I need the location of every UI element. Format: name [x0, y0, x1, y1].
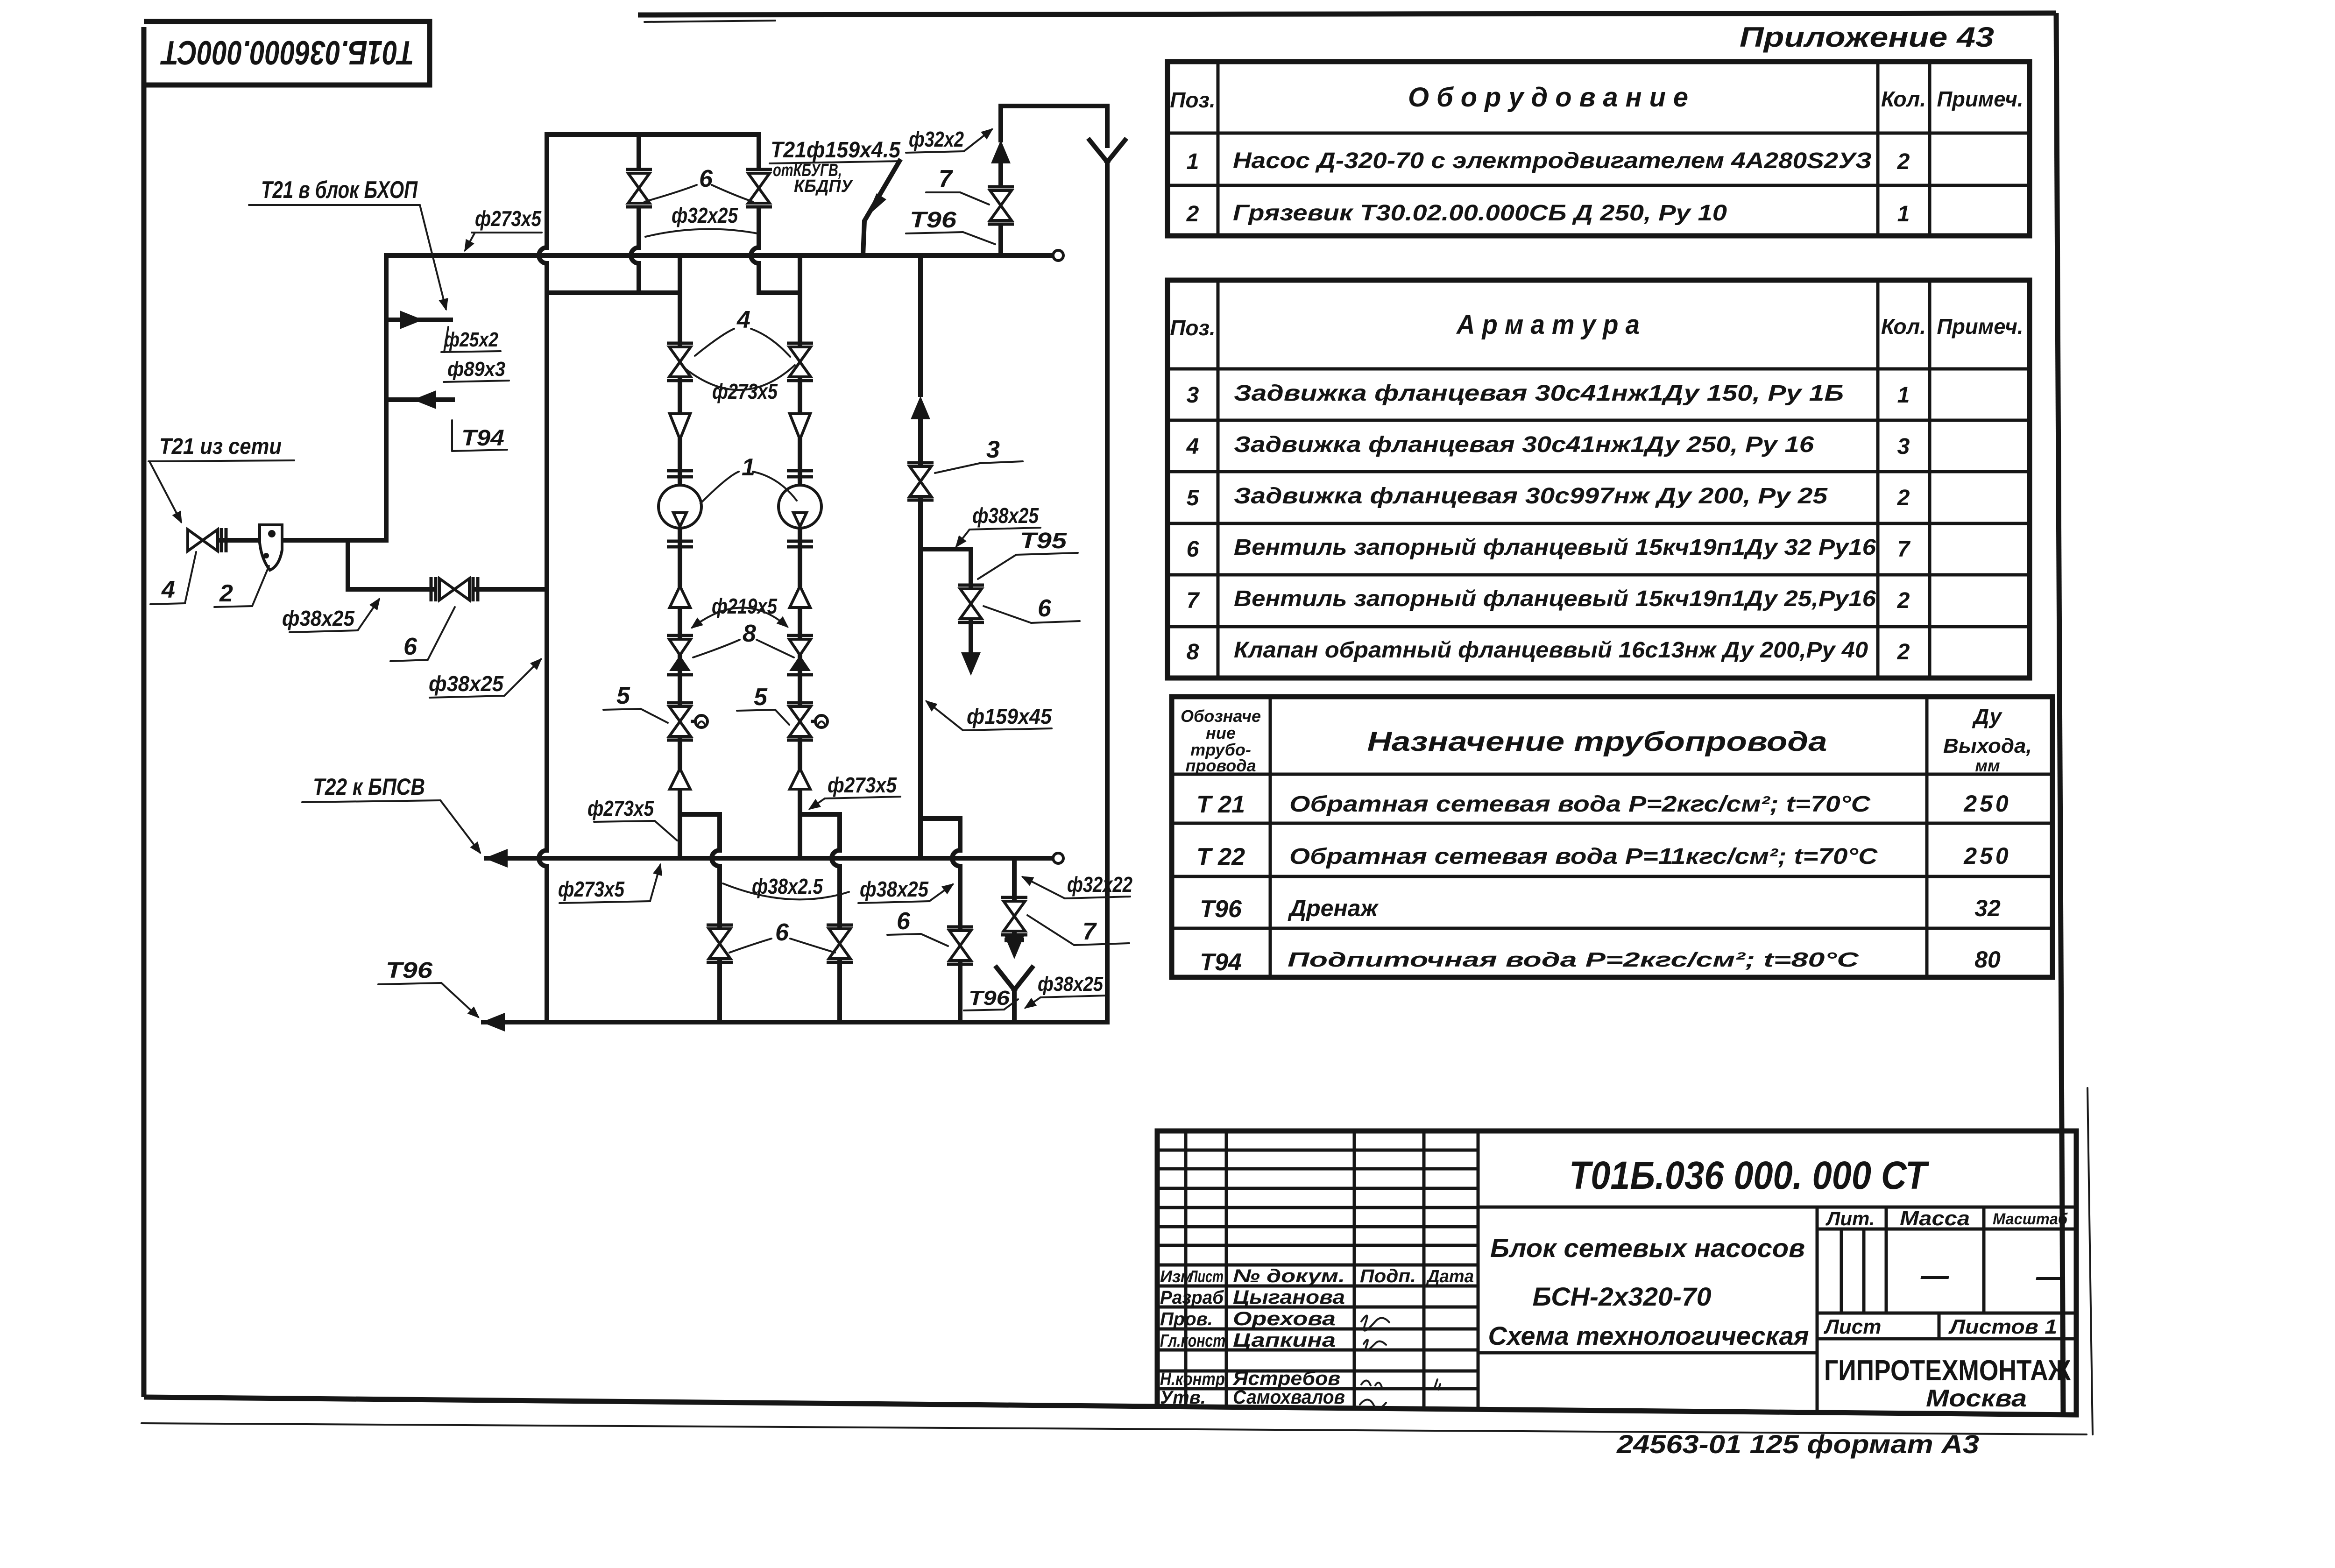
pipe: strainer to riser [284, 538, 386, 543]
svg-text:ние: ние [1206, 723, 1236, 742]
table Назначение трубопровода [1172, 697, 2052, 977]
flow arrow down into funnel [1005, 936, 1024, 959]
svg-text:Выхода,: Выхода, [1943, 735, 2032, 757]
svg-text:провода: провода [1185, 756, 1256, 775]
flow arrow down (T95 outlet) [961, 652, 981, 676]
svg-text:ф38х25: ф38х25 [429, 671, 504, 696]
svg-text:Москва: Москва [1926, 1385, 2027, 1412]
pump 1 (left) [658, 485, 701, 528]
svg-text:5: 5 [616, 682, 630, 709]
svg-text:Задвижка фланцевая 30с41нж1Ду: Задвижка фланцевая 30с41нж1Ду 150, Ру 1Б [1234, 381, 1844, 406]
svg-text:7: 7 [939, 165, 953, 192]
valve 4 (left pump suction) [669, 347, 691, 362]
pipe: recirculation riser upper [918, 255, 923, 395]
pipe: jog y627 right [759, 290, 800, 295]
flow arrow right [400, 311, 423, 329]
svg-text:ф38х25: ф38х25 [1038, 973, 1103, 996]
valve 6 (drain stub 2) [829, 929, 850, 944]
valve 6 (left vent) [628, 173, 650, 188]
svg-text:Примеч.: Примеч. [1937, 87, 2024, 111]
svg-text:Цапкина: Цапкина [1233, 1329, 1336, 1351]
title block: main divider [1477, 1131, 1480, 1408]
pipe: lower T22 header [486, 856, 1053, 861]
svg-text:ф273х5: ф273х5 [558, 877, 625, 901]
svg-text:ф273х5: ф273х5 [475, 206, 542, 231]
svg-text:Приложение 43: Приложение 43 [1740, 21, 1994, 53]
funnel (drain) top right [1090, 140, 1107, 162]
flow arrow: T22 out [484, 849, 508, 868]
expander left lower [670, 769, 690, 789]
pipe: left drain jog [680, 812, 720, 817]
svg-text:ф32х25: ф32х25 [672, 203, 738, 227]
expander left [670, 586, 690, 607]
pipe: recirculation riser lower [918, 498, 923, 858]
svg-text:Лит.: Лит. [1826, 1208, 1875, 1229]
svg-text:3: 3 [986, 436, 1000, 463]
svg-text:Лист: Лист [1188, 1267, 1224, 1286]
pipe: jog y627 left [547, 290, 680, 295]
pipe: vent top horizontal [1001, 104, 1107, 108]
svg-text:Т94: Т94 [461, 426, 504, 451]
svg-text:Цыганова: Цыганова [1233, 1286, 1345, 1308]
svg-text:Подпиточная вода Р=2кгс/см²; t: Подпиточная вода Р=2кгс/см²; t=80°С [1288, 948, 1860, 971]
pipe: vent riser top [998, 106, 1003, 140]
svg-text:7: 7 [1187, 588, 1200, 613]
pipe: into funnel [1105, 106, 1110, 146]
svg-text:Примеч.: Примеч. [1937, 314, 2024, 339]
svg-text:Т21 из сети: Т21 из сети [159, 434, 282, 459]
strainer (грязевик) pos 2 [260, 525, 282, 570]
pipe: left drain stub lower [717, 961, 722, 1022]
pipe: bypass right part [475, 587, 547, 592]
pipe: right vent drop upper [757, 134, 761, 167]
svg-text:2: 2 [1186, 202, 1199, 226]
pipe: right vent drop lower (hops header) [751, 209, 759, 293]
svg-text:7: 7 [1083, 918, 1097, 945]
svg-text:ф38х25: ф38х25 [282, 606, 355, 630]
svg-text:ф159х45: ф159х45 [967, 704, 1052, 728]
pump 1 (right) [778, 485, 821, 528]
pipe: left vent drop upper [637, 134, 641, 167]
svg-text:6: 6 [403, 633, 417, 660]
svg-text:2: 2 [1897, 486, 1910, 510]
flow arrow up (recirc riser) [911, 396, 930, 419]
svg-text:Обозначе: Обозначе [1181, 706, 1261, 726]
svg-text:Блок сетевых насосов: Блок сетевых насосов [1490, 1233, 1805, 1263]
svg-text:Лист: Лист [1824, 1315, 1882, 1338]
signatures [1361, 1315, 1389, 1330]
svg-text:Назначение трубопровода: Назначение трубопровода [1367, 727, 1827, 757]
svg-text:Т95: Т95 [1020, 529, 1068, 553]
svg-text:КБДПУ: КБДПУ [794, 177, 854, 196]
svg-text:Т21 в блок БХОП: Т21 в блок БХОП [261, 177, 418, 204]
svg-text:Дренаж: Дренаж [1288, 895, 1379, 921]
svg-text:Масса: Масса [1900, 1207, 1970, 1230]
pipe: third drain stub lower [958, 962, 962, 1022]
funnel (drain) bottom right [997, 968, 1014, 990]
svg-text:—: — [1920, 1260, 1949, 1291]
pipe: incoming T21 ф159х4.5 diagonal [863, 161, 899, 255]
valve 5 (right, w/ gear) [789, 706, 811, 721]
valve 7 (top vent) [990, 191, 1012, 205]
valve 5 (left, w/ gear) [669, 706, 691, 721]
svg-text:Грязевик Т30.02.00.000СБ Д 25: Грязевик Т30.02.00.000СБ Д 250, Ру 10 [1233, 201, 1727, 226]
svg-text:8: 8 [1187, 640, 1199, 664]
svg-text:Насос Д-320-70 с электродвигат: Насос Д-320-70 с электродвигателем 4А280… [1233, 148, 1872, 173]
svg-text:6: 6 [1038, 595, 1052, 622]
svg-text:3: 3 [1187, 383, 1199, 408]
svg-text:Т22 к БПСВ: Т22 к БПСВ [313, 774, 425, 800]
svg-text:4: 4 [736, 306, 750, 333]
frame bottom border [144, 1397, 1157, 1406]
valve 6 (right vent) [748, 173, 770, 188]
svg-text:6: 6 [775, 919, 789, 946]
svg-text:ф273х5: ф273х5 [587, 796, 654, 820]
pipe: T21 to BHOP branch [386, 318, 451, 322]
pipe: right pump column [798, 255, 802, 344]
svg-text:Дата: Дата [1426, 1267, 1474, 1286]
svg-text:2: 2 [1897, 149, 1910, 174]
svg-text:Пров.: Пров. [1160, 1309, 1213, 1329]
pipe: vent riser (valve 7) [998, 225, 1003, 255]
svg-text:4: 4 [1186, 434, 1199, 459]
svg-text:Самохвалов: Самохвалов [1233, 1386, 1345, 1408]
pipe: funnel standpipe [1105, 162, 1110, 1022]
table Арматура [1167, 280, 2030, 678]
outer vertical by title block [2087, 1088, 2093, 1434]
svg-text:1: 1 [1187, 149, 1199, 174]
svg-text:1: 1 [742, 454, 755, 481]
pipe: long drain line upper (hops T21 header) [539, 134, 547, 849]
check valve 8 (right) [789, 639, 811, 655]
svg-text:№ докум.: № докум. [1233, 1266, 1345, 1286]
pipe: right drain stub lower [837, 961, 842, 1022]
flow arrow: T96 out [481, 1013, 505, 1031]
pipe: drop to bypass [346, 540, 350, 589]
pipe: main riser [384, 255, 389, 540]
svg-text:А р м а т у р а: А р м а т у р а [1456, 310, 1640, 340]
svg-text:Обратная сетевая вода Р=2кгс/с: Обратная сетевая вода Р=2кгс/см²; t=70°С [1289, 792, 1871, 817]
svg-text:Т21ф159х4.5: Т21ф159х4.5 [771, 138, 901, 162]
svg-text:ф32х2: ф32х2 [909, 127, 964, 151]
svg-text:Т01Б.036000.000СТ: Т01Б.036000.000СТ [160, 34, 414, 71]
valve 6 (drain stub 1) [709, 929, 730, 944]
pipe: top box header [547, 132, 759, 137]
svg-text:Т96: Т96 [910, 208, 956, 233]
svg-text:32: 32 [1974, 895, 2001, 921]
svg-text:Разраб: Разраб [1160, 1287, 1224, 1308]
pipe: T95 drain outlet [969, 620, 973, 654]
svg-text:Т01Б.036 000. 000 СТ: Т01Б.036 000. 000 СТ [1569, 1153, 1930, 1197]
pipe: third drain stub (hops T22 header) [952, 819, 960, 929]
svg-text:ф38х25: ф38х25 [972, 503, 1039, 528]
svg-text:ф25х2: ф25х2 [444, 328, 498, 351]
thin bottom rule [142, 1423, 2087, 1434]
valve 4 (right pump suction) [789, 347, 811, 362]
svg-text:80: 80 [1974, 946, 2001, 973]
valve 6 (drain stub 3) [949, 931, 971, 946]
frame left border [142, 27, 147, 1397]
svg-text:250: 250 [1963, 843, 2011, 869]
svg-text:БСН-2х320-70: БСН-2х320-70 [1533, 1282, 1712, 1311]
valve 6 (T95 drain) [960, 589, 982, 604]
svg-text:3: 3 [1897, 434, 1910, 459]
svg-text:О б о р у д о в а н и е: О б о р у д о в а н и е [1408, 82, 1688, 113]
svg-text:ф32х22: ф32х22 [1067, 872, 1132, 897]
svg-text:2: 2 [1897, 588, 1910, 613]
pipe: right drain jog [800, 812, 840, 817]
svg-text:Т96: Т96 [969, 987, 1010, 1010]
svg-text:Обратная сетевая вода Р=11кгс/: Обратная сетевая вода Р=11кгс/см²; t=70°… [1289, 844, 1878, 869]
pipe: left drain stub (hops T22 header) [712, 814, 720, 927]
pipe: T95 branch drop [969, 549, 973, 588]
valve 6 (bypass globe valve) [439, 579, 454, 600]
flow arrow left (T94 in) [413, 390, 436, 409]
svg-text:Гл.конст.: Гл.конст. [1160, 1331, 1229, 1351]
svg-text:Клапан обратный фланцеввый 16с: Клапан обратный фланцеввый 16с13нж Ду 20… [1234, 638, 1868, 663]
svg-text:Вентиль запорный фланцевый 15к: Вентиль запорный фланцевый 15кч19п1Ду 32… [1234, 535, 1876, 560]
svg-text:Задвижка фланцевая 30с997нж Ду: Задвижка фланцевая 30с997нж Ду 200, Ру 2… [1234, 484, 1828, 509]
svg-text:5: 5 [754, 684, 768, 711]
pipe: funnel stem to T96 header [1012, 990, 1017, 1022]
svg-text:7: 7 [1897, 537, 1911, 562]
svg-text:Масштаб: Масштаб [1993, 1210, 2068, 1228]
valve 4 (inlet gate valve) [188, 530, 203, 551]
overdrawn stroke artifact [644, 21, 775, 22]
svg-text:Кол.: Кол. [1881, 87, 1926, 111]
svg-text:Листов 1: Листов 1 [1948, 1315, 2057, 1338]
svg-text:2: 2 [219, 580, 233, 607]
svg-text:Кол.: Кол. [1881, 314, 1926, 339]
svg-text:6: 6 [897, 908, 911, 935]
frame right border [2056, 13, 2063, 1415]
pipe: left pump column [678, 255, 682, 344]
pipe: T94 makeup branch [386, 397, 453, 402]
pipe: third drain jog [920, 816, 960, 821]
title block [1157, 1131, 2076, 1415]
svg-text:2: 2 [1897, 640, 1910, 664]
svg-text:ГИПРОТЕХМОНТАЖ: ГИПРОТЕХМОНТАЖ [1824, 1355, 2071, 1387]
pipe: recirculation riser mid [918, 418, 923, 466]
flow arrow on diagonal [866, 193, 886, 217]
svg-text:Подп.: Подп. [1360, 1266, 1416, 1286]
svg-text:5: 5 [1187, 486, 1200, 510]
svg-text:Утв.: Утв. [1160, 1387, 1206, 1408]
pipe: inlet to strainer [218, 538, 260, 543]
svg-text:Изм: Изм [1160, 1267, 1193, 1286]
pipe: long drain line lower (hops T22 header) [539, 849, 547, 1022]
svg-text:ф273х5: ф273х5 [828, 773, 897, 797]
svg-text:Т96: Т96 [1200, 896, 1242, 923]
svg-text:Т 21: Т 21 [1196, 791, 1245, 818]
svg-text:Н.контр.: Н.контр. [1160, 1370, 1229, 1389]
valve 3 (gate valve) [910, 466, 931, 481]
svg-text:1: 1 [1897, 383, 1910, 408]
frame top border [638, 13, 2056, 15]
svg-text:Поз.: Поз. [1170, 88, 1215, 112]
pipe: bypass left part [348, 587, 433, 592]
svg-text:Поз.: Поз. [1170, 316, 1215, 340]
svg-text:Задвижка фланцевая 30с41нж1Ду: Задвижка фланцевая 30с41нж1Ду 250, Ру 16 [1234, 432, 1814, 457]
svg-text:—: — [2036, 1261, 2065, 1292]
pipe: vent riser above valve [998, 166, 1003, 186]
expander right lower [790, 769, 810, 789]
svg-text:Ду: Ду [1972, 704, 2002, 728]
table Оборудование [1167, 62, 2030, 236]
svg-text:250: 250 [1963, 791, 2011, 817]
pipe: T95 branch horizontal [920, 547, 971, 551]
header end nub [1053, 250, 1063, 261]
svg-text:1: 1 [1897, 202, 1910, 226]
svg-text:8: 8 [743, 620, 756, 647]
svg-text:4: 4 [161, 576, 175, 603]
svg-text:6: 6 [699, 165, 713, 192]
pipe: bottom T96 drain header [483, 1020, 1107, 1024]
svg-text:Схема технологическая: Схема технологическая [1488, 1321, 1809, 1350]
svg-text:6: 6 [1187, 537, 1199, 562]
svg-text:Т96: Т96 [386, 958, 432, 983]
svg-text:Т94: Т94 [1200, 949, 1242, 976]
expander right [790, 586, 810, 607]
pipe: right drain stub (hops T22 header) [832, 814, 840, 927]
svg-text:ф38х25: ф38х25 [860, 877, 929, 901]
reducer right [790, 414, 810, 439]
pipe: drain w/ valve 7 bottom [1012, 858, 1017, 898]
svg-text:ф89х3: ф89х3 [447, 358, 505, 381]
flow arrow up (vent) [991, 140, 1011, 163]
pipe: left vent drop lower (hops header) [631, 209, 639, 293]
svg-text:24563-01 125 формат А3: 24563-01 125 формат А3 [1616, 1429, 1979, 1459]
top-left stamp box [144, 21, 430, 85]
svg-text:мм: мм [1975, 756, 2000, 775]
reducer left [670, 414, 690, 439]
pipe: upper T21 header [386, 253, 1053, 258]
valve 7 (bottom drain) [1004, 901, 1025, 916]
svg-text:Вентиль запорный фланцевый 15к: Вентиль запорный фланцевый 15кч19п1Ду 25… [1234, 586, 1876, 611]
T22 header end nub [1053, 853, 1063, 863]
check valve 8 (left) [669, 639, 691, 655]
svg-text:Т 22: Т 22 [1196, 843, 1245, 870]
svg-text:Орехова: Орехова [1233, 1307, 1336, 1329]
